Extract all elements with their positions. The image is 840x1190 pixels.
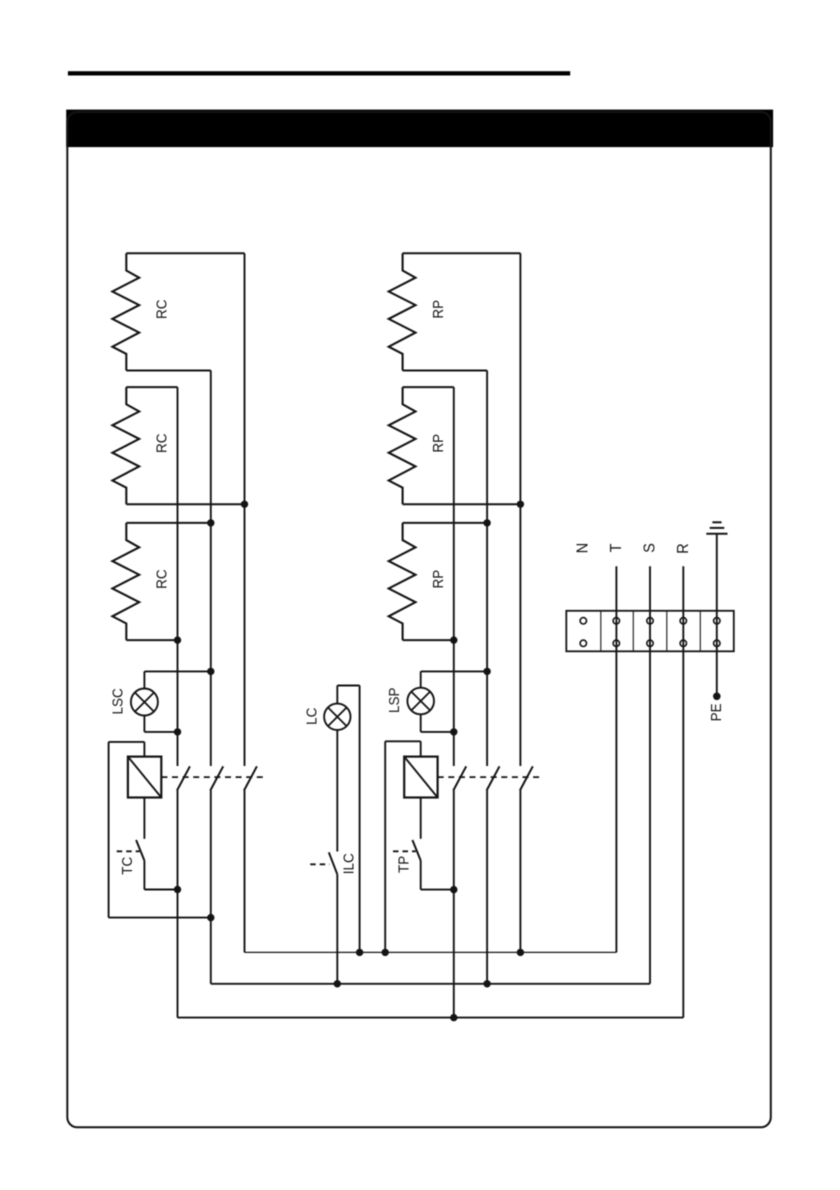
wire TP coil loop — [385, 741, 421, 952]
wire S terminal drop — [649, 566, 651, 984]
svg-text:ILC: ILC — [341, 853, 358, 874]
junction dots — [174, 501, 524, 1022]
TC contacts linkage (dashed) — [161, 776, 263, 778]
thermostat contact TC — [117, 840, 178, 890]
wire R line (bus L1/R terminal) — [178, 1017, 684, 1019]
wire T line (bus L3/T terminal) — [245, 951, 617, 953]
svg-text:T: T — [607, 544, 625, 553]
top rule — [68, 71, 570, 75]
svg-text:N: N — [574, 543, 592, 553]
bus wire R1 (RP2 top to R line) — [453, 387, 455, 1018]
node T label — [607, 544, 625, 553]
svg-text:PE: PE — [708, 703, 725, 721]
TP contacts linkage (dashed) — [438, 776, 540, 778]
bus wire L1 (RC2 top to R line) — [177, 387, 179, 1018]
contactor TC main contact 2 — [210, 766, 223, 790]
node N label — [574, 543, 592, 553]
wire TC coil loop — [109, 742, 211, 918]
svg-text:RP: RP — [430, 300, 447, 319]
terminal block screw holes — [580, 618, 720, 647]
lamp LSC — [110, 671, 211, 732]
resistor RC2 — [112, 387, 244, 504]
switch ILC — [310, 852, 358, 984]
title bar — [66, 110, 773, 148]
svg-text:LSC: LSC — [110, 688, 127, 714]
bus wire L3 (RC1 top to T line) — [244, 253, 246, 952]
resistor RP3 — [389, 523, 487, 640]
svg-text:LC: LC — [304, 708, 321, 725]
svg-text:TP: TP — [396, 856, 413, 873]
lamp LSP — [386, 671, 487, 732]
svg-text:RP: RP — [430, 434, 447, 453]
resistor RC3 — [112, 523, 210, 640]
node R label — [674, 543, 692, 553]
contactor TC main contact 3 — [244, 766, 257, 790]
terminal block X1 — [566, 611, 734, 652]
contactor TP main contact 2 — [487, 766, 500, 790]
contactor coil TC — [128, 742, 161, 839]
wire T terminal drop — [615, 566, 617, 952]
resistor RP2 — [389, 387, 521, 504]
svg-text:S: S — [641, 543, 659, 553]
node PE — [708, 693, 725, 722]
contactor coil TP — [404, 741, 437, 839]
lamp LC — [304, 686, 360, 953]
node S label — [641, 543, 659, 553]
svg-text:RC: RC — [154, 300, 171, 319]
wire S line (bus L2/S terminal) — [211, 983, 650, 985]
contactor TC main contact 1 — [177, 766, 190, 790]
contactor TP main contact 1 — [453, 766, 466, 790]
bus wire L2 (RC1 bottom to S line) — [210, 371, 212, 984]
bus wire R3 (RP1 top to T line) — [519, 253, 521, 952]
resistor RP1 — [389, 253, 521, 370]
bus wire R2 (RP1 bottom to S line) — [486, 371, 488, 984]
svg-text:RP: RP — [430, 570, 447, 589]
svg-text:RC: RC — [154, 569, 171, 588]
wire R terminal drop — [682, 566, 684, 1017]
contactor TP main contact 3 — [520, 766, 533, 790]
ground symbol — [706, 522, 727, 695]
svg-text:RC: RC — [154, 434, 171, 453]
svg-text:LSP: LSP — [386, 687, 403, 712]
drawing border frame — [67, 112, 771, 1127]
svg-text:TC: TC — [120, 857, 137, 875]
svg-text:R: R — [674, 543, 692, 553]
thermostat contact TP — [393, 840, 454, 890]
resistor RC1 — [112, 253, 244, 370]
